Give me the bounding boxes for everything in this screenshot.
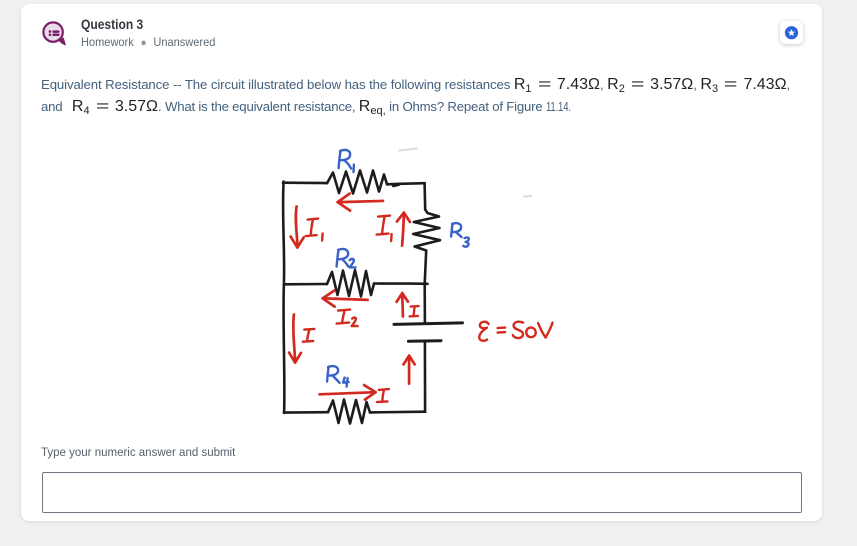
resistor R3 [413,210,440,251]
wire left vertical [283,182,284,413]
current arrow up (below battery) [408,358,411,384]
wire bottom left segment [284,411,328,414]
label I2 (under R2 arrow) [337,310,351,324]
faint smudge [524,195,531,198]
label R1 [339,150,352,169]
faint smudge [399,149,417,151]
wire right vertical mid [425,251,427,284]
resistor R2 [327,270,374,297]
wire top left segment [283,181,327,184]
resistor R1 [327,171,387,194]
wire middle right segment [374,282,428,285]
label I (bottom-left) [303,329,315,342]
current arrow I down (bottom-left) [293,315,295,361]
resistor R4 [328,400,370,424]
wire right vertical lower [424,342,427,412]
current arrow I1 up (right of center) [402,215,404,246]
current arrow I up (middle right) [401,295,404,316]
label I1 (top-left) [306,219,319,237]
label R3 [451,223,462,237]
battery long plate [394,323,463,325]
current arrow left under R2 [325,298,368,300]
question text line 2 [41,98,580,117]
emf label: epsilon = 50V [479,322,488,341]
wire right vertical to battery [423,284,426,323]
wire top right segment [387,183,425,184]
title [81,16,153,32]
wire right vertical upper [423,183,426,209]
wire middle left segment [284,283,327,286]
answer input [42,472,802,513]
current arrow left under R1 [340,201,383,202]
question icon (purple speech bubble) [40,19,68,47]
battery short plate [409,339,442,343]
label R2 [337,249,349,267]
label I1 (center) [377,216,391,235]
current arrow I1 down (top-left) [296,207,298,246]
hand-drawn circuit figure [260,140,580,440]
junction blob [394,184,399,185]
label small I (right of middle up arrow) [410,306,419,316]
current arrow right above R4 [320,392,373,394]
answer label [41,447,235,459]
question text line 1 [41,76,790,95]
label I (right of R4 arrow) [377,389,389,402]
wire bottom right segment [370,410,425,413]
label R4 [327,366,340,383]
star button [780,21,803,44]
